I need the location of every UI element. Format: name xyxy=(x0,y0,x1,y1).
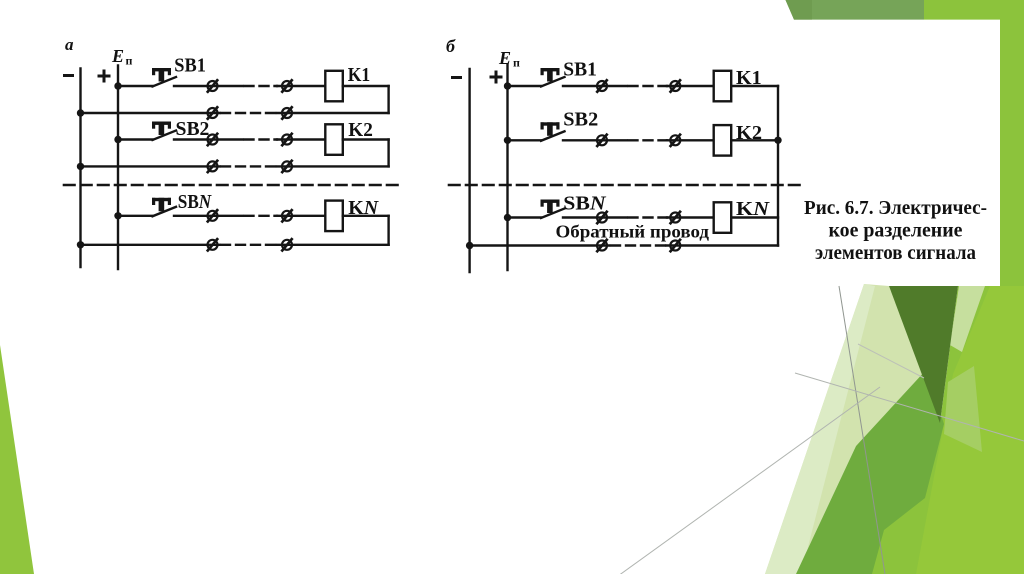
svg-text:Рис. 6.7. Электричес-: Рис. 6.7. Электричес- xyxy=(804,197,987,219)
svg-text:кое разделение: кое разделение xyxy=(829,220,963,242)
svg-text:п: п xyxy=(126,54,133,68)
svg-text:K2: K2 xyxy=(736,122,762,144)
svg-text:SB2: SB2 xyxy=(563,109,598,131)
svg-text:KN: KN xyxy=(348,197,379,219)
svg-text:E: E xyxy=(111,46,124,66)
svg-text:E: E xyxy=(498,48,511,68)
svg-text:K1: K1 xyxy=(736,67,762,89)
svg-text:SB2: SB2 xyxy=(176,118,210,140)
svg-text:б: б xyxy=(446,36,456,56)
svg-text:K1: K1 xyxy=(348,64,371,86)
svg-text:SB1: SB1 xyxy=(174,55,206,77)
svg-text:SBN: SBN xyxy=(178,191,213,213)
svg-text:SBN: SBN xyxy=(563,193,607,215)
svg-text:K2: K2 xyxy=(348,119,373,141)
svg-text:KN: KN xyxy=(736,198,771,220)
svg-text:SB1: SB1 xyxy=(563,59,597,81)
svg-text:а: а xyxy=(65,35,74,54)
svg-text:элементов сигнала: элементов сигнала xyxy=(815,242,976,264)
svg-text:п: п xyxy=(513,56,520,70)
svg-text:Обратный провод: Обратный провод xyxy=(556,222,710,242)
